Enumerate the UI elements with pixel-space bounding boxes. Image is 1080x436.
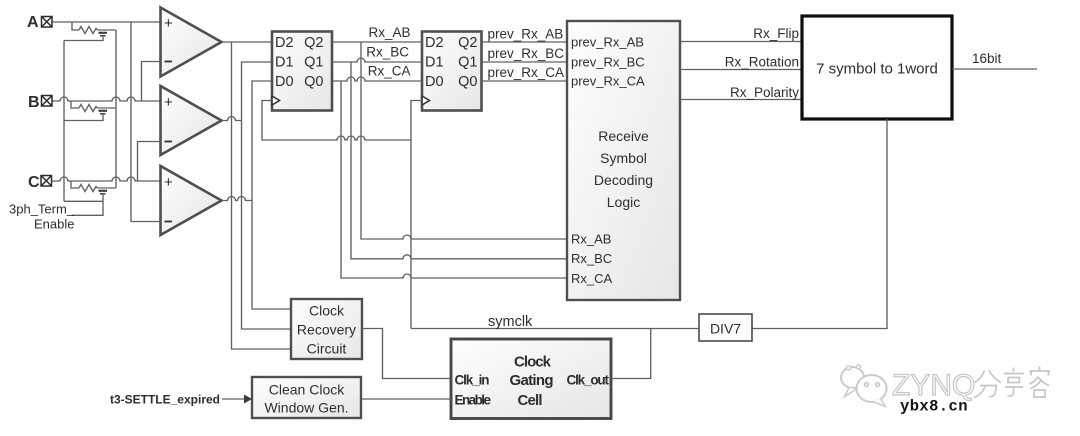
block Clean Clock Window Gen [252,377,361,418]
svg-text:prev_Rx_AB: prev_Rx_AB [571,35,644,50]
svg-text:Rx_BC: Rx_BC [366,45,409,60]
resistor RC [79,185,98,192]
svg-text:A: A [27,14,39,31]
svg-text:Clock: Clock [309,303,345,319]
block Clock Recovery Circuit [291,299,362,359]
svg-text:B: B [28,94,40,111]
svg-text:Q2: Q2 [304,35,323,51]
svg-text:Q1: Q1 [458,55,477,71]
wire Rx_BC tap to decoder (hop over clk riser) [351,62,567,259]
svg-text:Rx_Rotation: Rx_Rotation [725,55,799,70]
wire Rx_BC (hop over AB tap) [332,58,422,62]
op-amp comparator U3 [161,166,222,235]
transistor MC (termination switch) [99,191,108,194]
pad B [42,96,53,107]
svg-text:Clock: Clock [514,354,552,371]
wire MA gate to enable rail [64,37,103,41]
block Clock Gating Cell [451,339,611,419]
wire 3ph_Term_Enable link [72,201,104,215]
wire symclk riser to DFF2 clock [411,101,422,329]
wire Rx_Polarity [680,99,802,101]
svg-text:Circuit: Circuit [307,341,347,357]
wire Rx_Rotation [680,69,802,71]
block 7 symbol to 1word [802,16,952,119]
wire B termination branch [71,101,79,108]
flip-flop DFF1 [272,32,332,111]
svg-text:prev_Rx_AB: prev_Rx_AB [488,27,564,42]
svg-text:7 symbol to 1word: 7 symbol to 1word [816,61,938,78]
wire RB to star rail [98,107,117,109]
wire comp3 out to CRC input (rail) [252,201,291,310]
svg-text:Decoding: Decoding [594,172,653,188]
svg-text:Rx_AB: Rx_AB [368,25,410,40]
svg-text:Logic: Logic [607,194,640,210]
wire t3-SETTLE_expired arrow [222,398,245,400]
svg-text:ybx8.cn: ybx8.cn [900,398,968,416]
svg-text:Gating: Gating [510,372,554,389]
resistor RA [79,27,98,34]
svg-text:prev_Rx_BC: prev_Rx_BC [488,46,565,61]
wire comp3 out to DFF1 D0 (hops over rail1, rail2) [222,81,272,201]
resistor RB [79,105,98,112]
svg-text:3ph_Term_: 3ph_Term_ [9,202,75,217]
svg-text:C: C [28,174,40,191]
wire prev_Rx_CA [482,80,568,82]
wire Clk_out to symclk [611,329,651,379]
flip-flop DFF2 [422,32,482,111]
wire A [53,21,161,23]
wire A termination branch [72,22,79,30]
wire termination star rail [115,30,117,188]
svg-text:Cell: Cell [518,392,543,409]
svg-text:Q2: Q2 [458,35,477,51]
svg-text:Q0: Q0 [458,74,477,90]
svg-text:D2: D2 [425,35,444,51]
svg-text:DIV7: DIV7 [710,321,741,337]
svg-text:D0: D0 [425,74,444,90]
svg-text:Recovery: Recovery [297,322,356,338]
svg-text:Clean Clock: Clean Clock [269,382,345,398]
watermark hanzi FEN [974,371,1001,398]
block DIV7 [699,314,752,341]
pad C [41,176,52,187]
svg-text:Enable: Enable [34,217,74,232]
svg-text:prev_Rx_BC: prev_Rx_BC [571,55,645,70]
wire MB gate to enable rail [64,115,103,121]
svg-text:Enable: Enable [455,393,492,408]
svg-text:Clk_out: Clk_out [567,373,610,388]
pad A [42,17,53,28]
svg-text:Symbol: Symbol [600,150,647,166]
wire prev_Rx_AB [482,41,568,43]
svg-text:Rx_CA: Rx_CA [571,271,613,286]
wire Enable (CCWG to CGC) [361,398,451,400]
svg-text:D1: D1 [425,55,444,71]
wire comp2 out to CRC input (rail) [242,121,292,330]
wire comp2 out to DFF1 D1 (hop over rail1) [222,62,272,121]
watermark hanzi XIANG [1004,368,1024,397]
wire RC to star rail [98,187,117,189]
wire prev_Rx_BC [482,61,568,63]
block Receive Symbol Decoding Logic [567,21,680,300]
wire enable rail [63,41,65,202]
svg-text:D0: D0 [275,74,294,90]
wire DFF clock net [262,101,411,141]
wire C to comp2 minus [138,142,161,182]
wire MC gate to enable rail [64,195,103,202]
wire B (hops over enable rail, star rail, A-down rail) [53,97,161,101]
svg-text:Rx_AB: Rx_AB [571,232,611,247]
watermark hanzi KE [1030,367,1051,398]
svg-text:Q0: Q0 [304,74,323,90]
svg-text:symclk: symclk [488,314,533,330]
wire B to comp1 minus [142,62,161,102]
wire RA to star rail [98,29,117,31]
transistor MB (termination switch) [99,111,108,114]
op-amp comparator U1 [161,8,222,77]
transistor MA (termination switch) [99,33,108,36]
svg-text:D2: D2 [275,35,294,51]
svg-text:+: + [164,15,173,32]
svg-text:prev_Rx_CA: prev_Rx_CA [571,74,645,89]
svg-text:Clk_in: Clk_in [455,373,490,388]
svg-text:+: + [164,174,173,191]
svg-text:Rx_Polarity: Rx_Polarity [730,85,799,100]
watermark wechat icon [841,365,887,407]
wire symclk [411,328,699,330]
wire 16bit [952,68,1037,70]
svg-text:prev_Rx_CA: prev_Rx_CA [488,65,565,80]
svg-text:t3-SETTLE_expired: t3-SETTLE_expired [110,393,220,407]
wire C termination branch [71,181,79,188]
svg-text:Rx_BC: Rx_BC [571,251,612,266]
wire Rx_CA (hops over BC tap, AB tap) [332,77,422,81]
wire 7sym to DIV7 [752,119,887,329]
svg-text:Rx_Flip: Rx_Flip [753,26,799,41]
wire Rx_AB tap to decoder (hop over clk riser) [361,42,567,239]
op-amp comparator U2 [161,86,222,155]
svg-text:+: + [164,94,173,111]
svg-text:Rx_CA: Rx_CA [368,64,411,79]
svg-text:Q1: Q1 [304,55,323,71]
wire comp1 out to CRC input (rail) [232,42,292,349]
svg-text:Receive: Receive [598,128,649,144]
wire comp1 out to DFF1 D2 [222,41,272,43]
wire CRC out to CGC Clk_in [362,329,451,379]
wire Rx_AB (DFF1 Q2 to DFF2 D2) [332,41,422,43]
wire C (hops over enable rail, star rail, A-down rail) [52,177,161,181]
wire Rx_Flip [680,41,802,43]
svg-text:D1: D1 [275,55,294,71]
svg-text:Window Gen.: Window Gen. [264,400,348,416]
svg-text:16bit: 16bit [972,51,1002,66]
wire A to comp3 minus (A-down rail) [131,22,161,222]
wire Rx_CA tap to decoder (hop over clk riser) [341,81,567,278]
